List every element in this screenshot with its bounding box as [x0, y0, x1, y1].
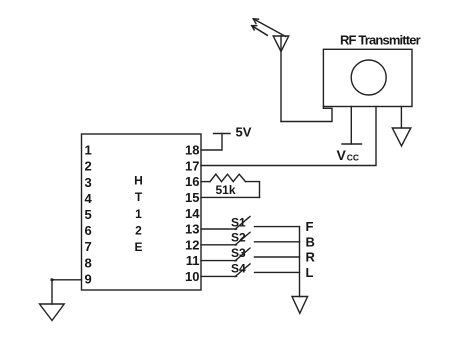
wire RF antenna pin step	[281, 107, 332, 122]
ground (switch bus)	[292, 297, 308, 314]
IC U1 HT12E body	[82, 134, 202, 290]
power 5V bar	[214, 133, 231, 135]
wire antenna feed	[280, 36, 282, 122]
svg-text:12: 12	[185, 237, 199, 252]
svg-text:51k: 51k	[216, 183, 236, 197]
wire RF Vcc pin	[350, 107, 352, 145]
switch S1 arm	[235, 217, 250, 230]
svg-text:T: T	[135, 190, 143, 204]
wire pin11 stub	[201, 260, 237, 262]
wire pin17 to RF data pin	[201, 107, 376, 166]
svg-text:2: 2	[85, 159, 92, 174]
wire pin10 stub	[201, 275, 237, 277]
RF transmitter U2 body	[323, 49, 412, 106]
wire resistor to pin15 loop	[246, 182, 260, 198]
svg-text:RF Transmitter: RF Transmitter	[340, 33, 421, 48]
svg-text:H: H	[134, 173, 143, 187]
svg-text:S1: S1	[231, 215, 246, 229]
wire pin18 stub	[201, 134, 222, 151]
svg-text:2: 2	[135, 223, 142, 237]
switch S2 arm	[235, 232, 250, 245]
svg-text:CC: CC	[347, 153, 359, 163]
RF transmitter circle	[351, 60, 386, 95]
wire switch common bus	[299, 227, 301, 297]
resistor R1 zigzag	[210, 174, 246, 181]
svg-text:11: 11	[186, 253, 200, 268]
wire S1 to bus (F)	[255, 226, 300, 228]
wire pin9 to ground	[52, 280, 82, 304]
svg-text:5V: 5V	[236, 125, 252, 140]
svg-text:18: 18	[185, 143, 199, 158]
wire pin13 stub	[201, 228, 237, 230]
svg-text:1: 1	[135, 207, 142, 221]
svg-text:V: V	[337, 147, 347, 163]
svg-text:4: 4	[85, 191, 93, 206]
svg-text:7: 7	[85, 239, 92, 254]
svg-text:15: 15	[185, 190, 199, 205]
wire RF ground pin	[400, 107, 402, 129]
label Vcc	[337, 147, 360, 163]
svg-text:14: 14	[185, 206, 200, 221]
wire pin16 stub	[201, 181, 210, 183]
svg-text:5: 5	[85, 207, 92, 222]
svg-text:6: 6	[85, 223, 92, 238]
antenna radiation arrow 1	[253, 19, 285, 37]
antenna	[273, 36, 289, 52]
svg-text:F: F	[306, 219, 314, 234]
wire S2 to bus (B)	[255, 241, 300, 243]
wire S4 to bus (L)	[255, 271, 300, 273]
ground (pin9)	[40, 304, 65, 321]
svg-text:16: 16	[185, 174, 199, 189]
wire pin15 stub	[201, 196, 260, 198]
svg-text:1: 1	[85, 143, 92, 158]
svg-text:S4: S4	[231, 261, 246, 275]
switch S4 arm	[235, 264, 250, 277]
svg-text:10: 10	[185, 269, 199, 284]
svg-text:B: B	[306, 234, 315, 249]
junction dot pin9 wire	[50, 278, 53, 281]
svg-text:8: 8	[85, 255, 92, 270]
ground (RF)	[392, 128, 411, 146]
svg-text:3: 3	[85, 175, 92, 190]
wire S3 to bus (R)	[255, 256, 300, 258]
switch S3 arm	[235, 248, 250, 261]
svg-text:13: 13	[185, 222, 199, 237]
wire pin12 stub	[201, 244, 237, 246]
svg-text:9: 9	[85, 271, 92, 286]
svg-text:S2: S2	[231, 231, 246, 245]
antenna radiation arrow 2	[252, 26, 267, 36]
IC U1 label HT12E	[134, 173, 143, 254]
svg-text:R: R	[306, 250, 316, 265]
svg-text:17: 17	[185, 158, 199, 173]
svg-text:L: L	[306, 265, 314, 280]
power Vcc bar	[342, 143, 362, 145]
svg-text:S3: S3	[231, 246, 246, 260]
svg-text:E: E	[134, 240, 142, 254]
